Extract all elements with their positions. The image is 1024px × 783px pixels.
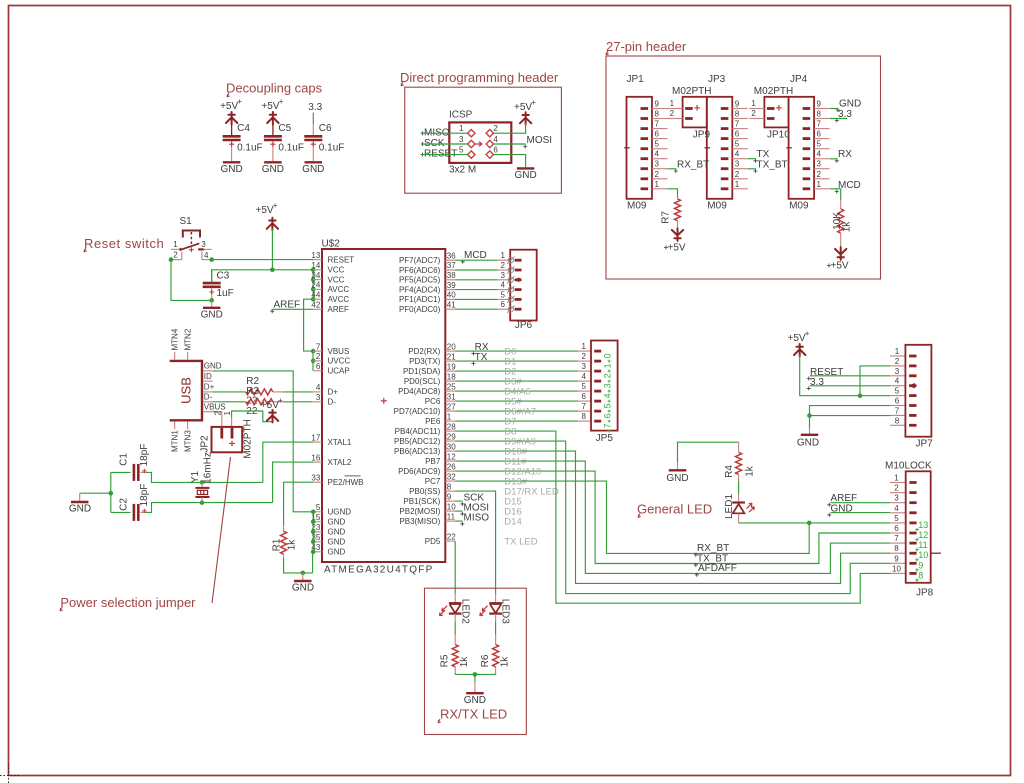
resistor R8 10K/1k (840, 200, 842, 209)
JP10 pin lines (749, 108, 764, 110)
svg-text:1: 1 (751, 99, 756, 108)
leader line to JP2 (212, 457, 231, 603)
wire ICSP pin2 to +5V (494, 123, 526, 133)
svg-text:5: 5 (501, 290, 506, 299)
wire JP4 pin8 3.3 stub (830, 118, 847, 120)
svg-text:TX_BT: TX_BT (757, 159, 788, 170)
svg-text:10: 10 (892, 564, 901, 573)
svg-text:10: 10 (918, 550, 928, 560)
wire USB GND to IC UGND (213, 371, 313, 512)
svg-text:GND: GND (262, 164, 284, 175)
wire ICSP pin4 to MOSI (494, 143, 526, 145)
svg-text:GND: GND (839, 99, 861, 110)
svg-text:8: 8 (447, 482, 452, 491)
LED LED2 (454, 594, 456, 603)
svg-text:R5: R5 (440, 654, 451, 667)
svg-text:4: 4 (655, 150, 660, 159)
svg-text:38: 38 (447, 271, 456, 280)
wire IC PB0 to LED3 (455, 491, 496, 594)
svg-text:2: 2 (493, 124, 498, 133)
svg-text:12: 12 (447, 452, 456, 461)
+5V (below R7, arrow down) (677, 221, 679, 229)
wire D2 to JP5 pin3 (455, 370, 578, 372)
svg-text:PB1(SCK): PB1(SCK) (403, 497, 440, 506)
connector JP2 (M02PTH) power jumper (221, 412, 223, 427)
svg-text:1: 1 (895, 347, 900, 356)
JP3 pin lines (732, 108, 748, 110)
svg-text:MISO: MISO (464, 512, 490, 523)
svg-text:1: 1 (894, 474, 899, 483)
connector JP3 (M09) (707, 97, 733, 199)
svg-text:1: 1 (447, 412, 452, 421)
node JP7 pin5 junction (858, 393, 863, 398)
svg-text:8: 8 (817, 110, 822, 119)
wire C2 left (111, 511, 131, 513)
wire D3# to JP5 pin4 (455, 380, 578, 382)
svg-text:RX: RX (838, 149, 852, 160)
svg-text:4: 4 (817, 150, 822, 159)
svg-text:1: 1 (459, 124, 464, 133)
wire crystal top to XTAL1 pin17 (263, 442, 313, 482)
svg-text:+5V: +5V (220, 101, 238, 112)
node RX/TX ground junction (473, 672, 478, 677)
svg-text:8: 8 (582, 412, 587, 421)
capacitor C4 0.1uF (223, 135, 241, 138)
svg-text:16: 16 (311, 453, 320, 462)
connector JP9 (M02PTH) (683, 97, 707, 128)
wire D10# to JP8 (455, 451, 890, 583)
svg-text:M10LOCK: M10LOCK (885, 461, 932, 472)
wire GND chain down (312, 552, 314, 573)
svg-text:ID: ID (204, 372, 212, 381)
svg-text:10: 10 (447, 502, 456, 511)
JP9 pin lines (668, 108, 683, 110)
svg-text:JP4: JP4 (790, 74, 808, 85)
svg-text:LED1: LED1 (724, 494, 735, 519)
svg-text:0.1uF: 0.1uF (319, 143, 345, 154)
wire crystal bottom to XTAL2 pin16 (273, 462, 314, 503)
svg-text:40: 40 (447, 291, 456, 300)
svg-text:4: 4 (894, 504, 899, 513)
svg-text:17: 17 (311, 433, 320, 442)
svg-text:PE2/HWB: PE2/HWB (328, 478, 364, 487)
svg-text:GND: GND (69, 504, 91, 515)
svg-text:32: 32 (447, 472, 456, 481)
svg-text:PF7(ADC7): PF7(ADC7) (399, 256, 441, 265)
svg-text:MOSI: MOSI (527, 135, 553, 146)
svg-text:6: 6 (655, 130, 660, 139)
svg-text:MTN3: MTN3 (184, 430, 193, 452)
svg-text:JP6: JP6 (515, 320, 533, 331)
svg-text:+5V: +5V (261, 400, 279, 411)
svg-text:20: 20 (447, 342, 456, 351)
node UVCC junction (311, 359, 316, 364)
svg-text:9: 9 (817, 100, 822, 109)
svg-text:1k: 1k (500, 656, 511, 668)
wire C1 to crystal/XTAL1 (146, 472, 263, 482)
svg-text:S1: S1 (180, 216, 193, 227)
svg-text:7: 7 (895, 406, 900, 415)
resistor R6 1k (495, 635, 497, 645)
svg-text:1: 1 (223, 411, 232, 416)
svg-text:LED3: LED3 (500, 599, 511, 624)
svg-text:PD2(RX): PD2(RX) (408, 347, 440, 356)
resistor R2 22 (246, 389, 273, 395)
wire JP2 pin1 to +5V (232, 411, 273, 422)
svg-text:UGND: UGND (328, 508, 352, 517)
+5V (below R8, arrow down) (835, 247, 846, 260)
svg-text:C6: C6 (319, 123, 332, 134)
svg-text:MTN1: MTN1 (171, 430, 180, 452)
JP6 pin lines (498, 259, 511, 261)
section box: RX/TX LED (425, 588, 527, 734)
svg-text:19: 19 (447, 362, 456, 371)
svg-text:XTAL1: XTAL1 (328, 438, 352, 447)
wire LED3 to R6 (495, 614, 497, 622)
svg-text:3: 3 (735, 160, 740, 169)
svg-text:Y1: Y1 (190, 470, 201, 483)
ground below C4 (223, 161, 241, 163)
svg-text:JP2: JP2 (200, 435, 211, 453)
wire R8 to +5V (840, 245, 842, 249)
svg-text:JP7: JP7 (916, 439, 934, 450)
svg-text:31: 31 (447, 392, 456, 401)
wire JP7 pin2 branch (860, 366, 890, 396)
svg-text:4: 4 (895, 377, 900, 386)
svg-text:9: 9 (894, 554, 899, 563)
svg-text:2: 2 (213, 411, 222, 416)
svg-text:RESET: RESET (328, 255, 355, 264)
svg-text:18: 18 (447, 372, 456, 381)
svg-text:42: 42 (311, 301, 320, 310)
svg-text:6: 6 (582, 392, 587, 401)
resistor R7 (677, 197, 679, 199)
svg-text:2: 2 (173, 251, 178, 260)
svg-text:7: 7 (735, 120, 740, 129)
svg-text:7: 7 (894, 534, 899, 543)
wires IC PF ports to JP6 (455, 259, 498, 261)
resistor R3 22 (246, 399, 273, 405)
svg-text:7: 7 (603, 423, 613, 428)
net label SCK (IC PB1) (455, 500, 462, 502)
svg-text:4: 4 (204, 251, 209, 260)
svg-text:GND: GND (328, 518, 346, 527)
wire JP1 pin3 RX_BT stub (668, 168, 677, 170)
svg-text:PB2(MOSI): PB2(MOSI) (399, 507, 440, 516)
svg-text:6: 6 (735, 130, 740, 139)
wire JP7 ground to pins 6,7 (810, 406, 891, 429)
svg-text:+5V: +5V (788, 333, 806, 344)
svg-text:7: 7 (655, 120, 660, 129)
svg-text:PF0(ADC0): PF0(ADC0) (399, 305, 441, 314)
svg-text:VBUS: VBUS (328, 347, 350, 356)
ground (IC) (302, 573, 304, 580)
svg-text:3: 3 (603, 383, 613, 388)
svg-text:ICSP: ICSP (449, 110, 473, 121)
svg-text:25: 25 (447, 382, 456, 391)
wire RESET to ICSP pin5 (421, 154, 467, 156)
svg-text:7: 7 (316, 342, 321, 351)
svg-text:2: 2 (316, 352, 321, 361)
wire D6#/A7 to JP5 pin7 (455, 410, 578, 412)
svg-text:8: 8 (655, 110, 660, 119)
wire S1 to IC RESET pin13 (212, 259, 314, 261)
connector ICSP 3x2 box (449, 122, 511, 162)
connector JP4 (M09) (789, 97, 815, 199)
LED LED1 (738, 494, 740, 502)
wire AREF to IC pin42 (272, 308, 314, 310)
svg-text:JP9: JP9 (693, 130, 711, 141)
svg-text:37: 37 (447, 261, 456, 270)
capacitor C5 0.1uF (264, 135, 282, 138)
svg-text:D+: D+ (204, 383, 215, 392)
node JP8 pin5 junction (807, 521, 812, 526)
svg-text:7: 7 (582, 402, 587, 411)
wire between C1 and C2 (110, 472, 112, 512)
svg-text:PB6(ADC13): PB6(ADC13) (394, 447, 441, 456)
svg-text:6: 6 (316, 362, 321, 371)
svg-text:+5V: +5V (256, 205, 274, 216)
svg-text:R1: R1 (272, 538, 283, 551)
svg-text:JP10: JP10 (767, 130, 790, 141)
svg-text:M02PTH: M02PTH (754, 86, 793, 97)
svg-text:2: 2 (603, 373, 613, 378)
USB pin stubs (203, 370, 213, 372)
svg-text:+5V: +5V (831, 261, 849, 272)
capacitor C2 18pF (133, 504, 136, 521)
wire VBUS to UVCC to UCAP (312, 351, 314, 371)
svg-text:VCC: VCC (328, 275, 345, 284)
wire LED2 to R5 (454, 614, 456, 622)
svg-text:PD5: PD5 (425, 537, 441, 546)
wire MISO to ICSP pin1 (421, 132, 467, 134)
wire R1 to ground rail (284, 559, 313, 573)
JP5 pin lines (578, 350, 591, 352)
svg-text:AVCC: AVCC (328, 295, 350, 304)
JP8 pin8 tick mark (931, 552, 941, 554)
svg-text:RX_BT: RX_BT (677, 159, 709, 170)
JP1 pin lines (652, 108, 668, 110)
svg-text:8: 8 (894, 544, 899, 553)
svg-text:1k: 1k (745, 465, 756, 477)
crystal Y1 16mHz (201, 482, 203, 487)
wire JP4 pin9 GND stub (830, 108, 839, 110)
svg-text:13: 13 (311, 251, 320, 260)
ground (JP7) (809, 429, 811, 434)
svg-text:1: 1 (670, 99, 675, 108)
svg-text:U$2: U$2 (322, 239, 341, 250)
svg-text:+: + (279, 97, 284, 106)
svg-text:D-: D- (204, 393, 213, 402)
svg-text:LED2: LED2 (459, 599, 470, 624)
wire D8 to JP8 (455, 431, 890, 603)
svg-text:6: 6 (817, 130, 822, 139)
svg-text:0.1uF: 0.1uF (278, 143, 304, 154)
wire D11# to JP8 (455, 461, 890, 573)
svg-text:3: 3 (201, 240, 206, 249)
svg-text:General LED: General LED (637, 502, 712, 517)
svg-text:5: 5 (316, 503, 321, 512)
wire D0 to JP5 pin1 (455, 350, 578, 352)
svg-text:1k: 1k (842, 221, 853, 233)
wire D13# to JP8 pin5 and LED1 (455, 481, 890, 553)
svg-text:9: 9 (655, 100, 660, 109)
wire D- left segment (213, 401, 246, 403)
IC U2 ATMEGA32U4 body (322, 249, 445, 562)
wire IC PD5 to LED2 (454, 541, 456, 594)
svg-text:PD7(ADC10): PD7(ADC10) (394, 407, 441, 416)
svg-text:18pF: 18pF (139, 444, 150, 467)
svg-text:6: 6 (493, 146, 498, 155)
capacitor C3 1uF (211, 270, 213, 282)
svg-text:24: 24 (311, 281, 320, 290)
svg-text:+5V: +5V (514, 102, 532, 113)
svg-text:C3: C3 (217, 271, 230, 282)
IC right pin stubs (445, 259, 455, 261)
svg-text:TX LED: TX LED (504, 537, 537, 548)
svg-text:30: 30 (447, 442, 456, 451)
svg-text:JP1: JP1 (627, 74, 645, 85)
svg-text:Reset switch: Reset switch (84, 236, 164, 251)
svg-text:6: 6 (501, 300, 506, 309)
svg-text:1: 1 (735, 180, 740, 189)
LED LED3 (495, 594, 497, 603)
svg-text:4: 4 (501, 281, 506, 290)
svg-text:8: 8 (918, 570, 923, 580)
wire SCK to ICSP pin3 (421, 143, 467, 145)
wire IC GND pins chain (312, 512, 314, 552)
ground below C3 (211, 300, 213, 306)
svg-text:1: 1 (173, 240, 178, 249)
svg-text:GND: GND (292, 583, 314, 594)
connector JP5 (591, 341, 618, 431)
wire R4 to LED1 (738, 481, 740, 494)
svg-text:PE6: PE6 (425, 417, 441, 426)
node S1 right junction (209, 257, 214, 262)
svg-text:0: 0 (603, 353, 613, 358)
svg-text:PC6: PC6 (425, 397, 441, 406)
svg-text:14: 14 (311, 261, 320, 270)
wire ICSP pin6 to ground (494, 155, 526, 168)
svg-text:M02PTH: M02PTH (672, 86, 711, 97)
ground (R4) (677, 463, 679, 470)
connector JP7 (890, 355, 905, 357)
IC origin cross (381, 398, 387, 404)
svg-text:GND: GND (302, 164, 324, 175)
switch S1 contacts and blade (171, 248, 180, 250)
svg-text:M09: M09 (707, 201, 727, 212)
svg-text:C4: C4 (237, 123, 250, 134)
svg-text:MTN4: MTN4 (171, 328, 180, 350)
svg-text:4: 4 (316, 383, 321, 392)
svg-text:5: 5 (817, 140, 822, 149)
svg-text:11: 11 (447, 512, 456, 521)
JP6 pin origin marks (508, 258, 513, 263)
svg-text:D-: D- (328, 398, 337, 407)
wire D1 to JP5 pin2 (455, 360, 578, 362)
svg-text:26: 26 (447, 462, 456, 471)
svg-text:6: 6 (895, 397, 900, 406)
svg-text:PB0(SS): PB0(SS) (409, 487, 440, 496)
svg-text:3: 3 (316, 393, 321, 402)
svg-text:Direct programming header: Direct programming header (400, 70, 559, 85)
svg-text:UCAP: UCAP (328, 367, 350, 376)
wire R5 to ground node (454, 673, 456, 675)
ICSP pin1 direction arrow (475, 142, 482, 146)
svg-text:PF1(ADC1): PF1(ADC1) (399, 295, 441, 304)
svg-text:5: 5 (655, 140, 660, 149)
wire VBUS to JP2 pin2 (213, 411, 222, 413)
svg-text:1: 1 (817, 180, 822, 189)
node C3 bottom junction (209, 298, 214, 303)
connector JP8 (890, 482, 906, 484)
svg-text:PF5(ADC5): PF5(ADC5) (399, 276, 441, 285)
overline on HWB (345, 475, 361, 477)
svg-text:33: 33 (311, 473, 320, 482)
svg-text:GND: GND (220, 164, 242, 175)
svg-text:2: 2 (582, 352, 587, 361)
svg-text:9: 9 (447, 492, 452, 501)
svg-text:2: 2 (735, 170, 740, 179)
ground below C5 (264, 161, 282, 163)
svg-text:GND: GND (464, 695, 486, 706)
USB mounting pin stubs (174, 352, 176, 360)
svg-text:41: 41 (447, 300, 456, 309)
net label MISO (IC PB3) (455, 520, 462, 522)
svg-text:PD1(SDA): PD1(SDA) (403, 367, 441, 376)
svg-text:2: 2 (670, 109, 675, 118)
svg-text:VCC: VCC (328, 266, 345, 275)
ICSP pin diamonds (468, 130, 475, 137)
svg-text:PF4(ADC4): PF4(ADC4) (399, 285, 441, 294)
svg-text:3: 3 (655, 160, 660, 169)
svg-text:JP5: JP5 (596, 433, 614, 444)
svg-text:R6: R6 (480, 654, 491, 667)
node VBUS junction (311, 349, 316, 354)
svg-text:2: 2 (894, 484, 899, 493)
svg-text:3: 3 (817, 160, 822, 169)
wire AVCC to VBUS (304, 299, 314, 351)
svg-text:27-pin header: 27-pin header (606, 39, 687, 54)
svg-text:5: 5 (895, 387, 900, 396)
wire +5V to VCC rail (271, 229, 273, 270)
svg-text:+: + (805, 329, 810, 338)
svg-text:39: 39 (447, 281, 456, 290)
node S1 left junction (169, 257, 174, 262)
svg-text:27: 27 (447, 402, 456, 411)
switch S1 button bracket (183, 231, 200, 238)
wire S1 left to C3 bottom (171, 260, 212, 301)
svg-text:MCD: MCD (838, 180, 861, 191)
svg-text:JP3: JP3 (708, 74, 726, 85)
svg-text:29: 29 (447, 432, 456, 441)
svg-text:1uF: 1uF (217, 288, 234, 299)
svg-text:GND: GND (201, 310, 223, 321)
resistor R4 1k (738, 442, 740, 452)
wire JP4 pin1 to R8 (830, 189, 841, 201)
svg-text:M02PTH: M02PTH (243, 419, 254, 458)
svg-text:PB4(ADC11): PB4(ADC11) (395, 427, 441, 436)
IC left pin stubs (313, 259, 322, 261)
svg-text:3: 3 (459, 135, 464, 144)
svg-text:M09: M09 (789, 201, 809, 212)
resistor R5 1k (454, 635, 456, 645)
svg-text:8: 8 (735, 110, 740, 119)
svg-text:AVCC: AVCC (328, 285, 350, 294)
node crystal top (200, 480, 205, 485)
svg-text:18pF: 18pF (139, 484, 150, 507)
svg-text:C2: C2 (119, 498, 130, 511)
